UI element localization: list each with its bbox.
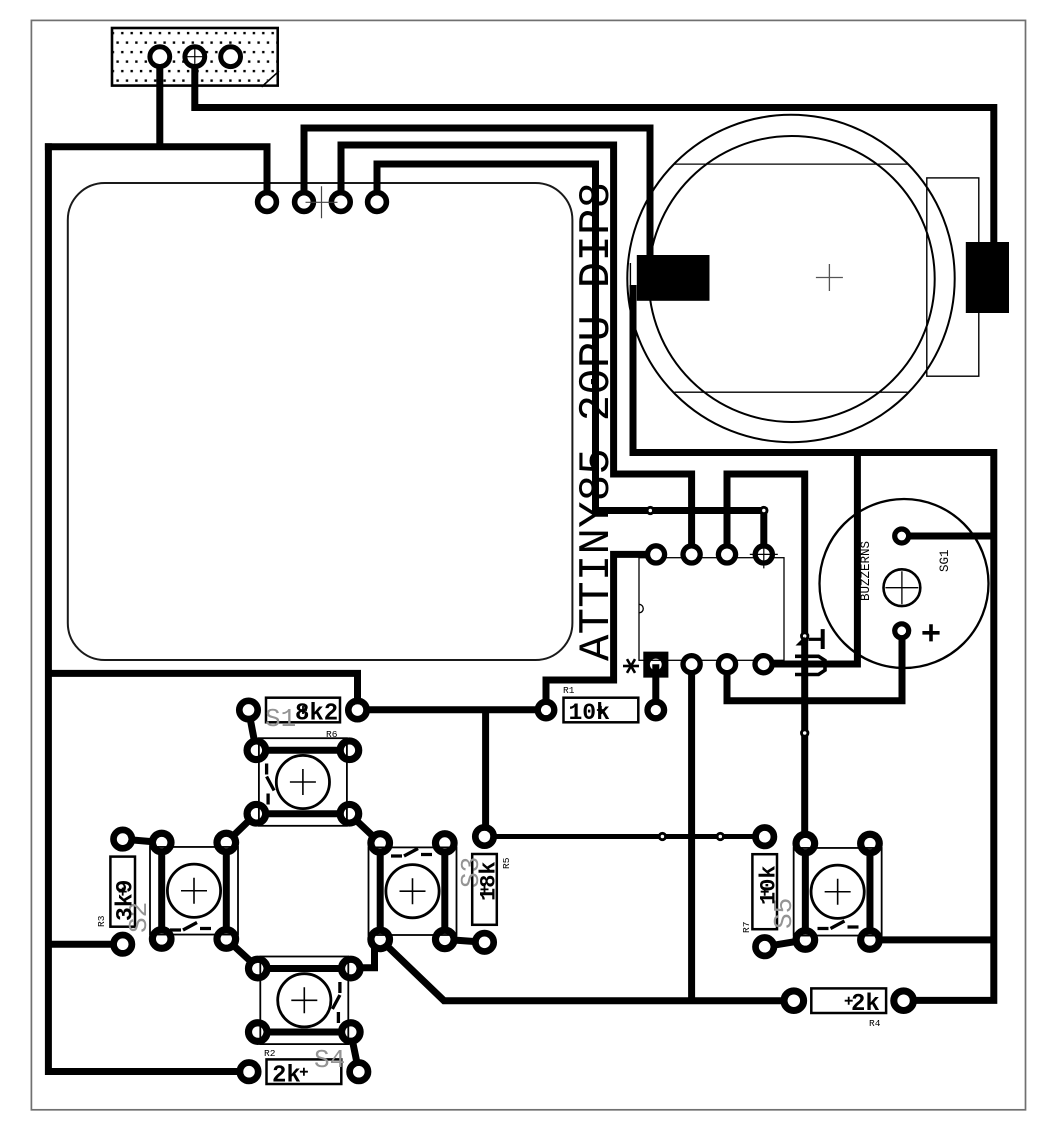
resistor R7 10k <box>741 828 799 956</box>
svg-text:BUZZERNS: BUZZERNS <box>859 541 873 601</box>
svg-text:R1: R1 <box>563 685 575 696</box>
svg-text:3k9: 3k9 <box>113 880 139 921</box>
button S3 <box>369 834 457 949</box>
via B <box>761 507 767 513</box>
svg-text:10k: 10k <box>757 865 782 905</box>
wire diagonal R3 top to S2 TL <box>123 839 162 842</box>
wire connector pad1 down <box>156 53 163 147</box>
wire connector pad2 to battery right pad <box>195 53 994 245</box>
IC U1 ATtiny85 DIP8 <box>639 540 784 677</box>
wire diagonal R7 bottom to S5 BL <box>765 940 806 947</box>
IC name text <box>572 182 622 661</box>
wire IC pin3-bottom to buzzer bottom pad <box>727 631 902 701</box>
wire branch to R6 right pad <box>48 673 357 709</box>
wire display pad3 to IC pin2-top <box>341 145 692 554</box>
svg-text:2k: 2k <box>851 991 880 1018</box>
battery BT1 coin cell holder <box>627 115 1009 442</box>
svg-text:10k: 10k <box>569 700 611 726</box>
svg-text:ATTINY85 20PU DIP8: ATTINY85 20PU DIP8 <box>572 182 622 661</box>
via E <box>659 833 665 839</box>
wire S4 TR pad to S3 BL pad <box>351 939 375 967</box>
svg-text:R5: R5 <box>501 857 512 869</box>
wire thin R5 top to R7 top <box>485 834 765 839</box>
wire diagonal S1 BR to S3 TL <box>349 814 380 843</box>
wire top-left horizontal to display pad1 <box>45 147 267 202</box>
display module outline U2 <box>68 183 573 660</box>
button S5 <box>794 834 882 949</box>
svg-text:18k: 18k <box>477 861 502 901</box>
wire display pad4 to IC pad4-top <box>377 164 764 554</box>
button S4 <box>248 957 360 1045</box>
wire battery left pad to R4 right <box>633 285 994 1000</box>
wire R6-R1 net down to R5 top <box>482 710 489 837</box>
svg-text:S4: S4 <box>314 1045 345 1075</box>
svg-text:R3: R3 <box>96 915 107 927</box>
capacitor C1 symbol <box>795 629 825 674</box>
resistor R3 3k9 <box>96 830 154 954</box>
svg-text:R7: R7 <box>741 922 752 933</box>
button S2 <box>150 833 238 948</box>
wire IC pad1-top to R1 left <box>546 554 656 710</box>
via A <box>647 507 653 513</box>
via F <box>717 833 723 839</box>
connector J1 <box>112 28 279 87</box>
svg-text:8k2: 8k2 <box>295 701 338 728</box>
wire branch to R3 bottom pad <box>48 941 123 948</box>
wire diagonal R6 left to S1 TL <box>249 710 257 750</box>
wire diagonal S1 BL to S2 TR <box>226 814 256 843</box>
wire R6 right pad to R1 left pad <box>358 706 547 713</box>
wire S5 BR pad right <box>870 936 994 943</box>
via D <box>802 730 808 736</box>
resistor R1 10k <box>538 685 664 726</box>
svg-text:2k: 2k <box>272 1063 301 1090</box>
wire IC pad3-top to S5 pad <box>727 474 805 844</box>
buzzer SG1 <box>820 499 989 668</box>
wire IC pin4-bottom to battery trace <box>764 453 858 665</box>
svg-text:R4: R4 <box>869 1018 881 1029</box>
svg-text:SG1: SG1 <box>938 549 952 572</box>
resistor R2 2k <box>240 1045 368 1090</box>
svg-text:S1: S1 <box>265 704 296 734</box>
wire left rail vertical <box>48 143 249 1071</box>
button S1 <box>247 738 359 826</box>
display pads and origin cross <box>258 186 387 218</box>
wire buzzer top pad right <box>902 533 994 540</box>
wire S3 BL pad to R4 left <box>380 939 794 1000</box>
resistor R6 8k2 <box>239 698 366 740</box>
IC pin1 asterisk marker <box>623 659 639 673</box>
resistor R5 18k <box>456 827 512 951</box>
wire IC pin2-bottom down <box>688 664 695 1001</box>
resistor R4 2k <box>784 988 913 1029</box>
via C <box>802 633 808 639</box>
wire diagonal R2 right to S4 BR <box>351 1033 359 1072</box>
wire IC pin1 to R1 right <box>652 664 659 710</box>
wire diagonal S3 BR to R5 bottom <box>445 939 485 942</box>
wire diagonal S2 BR to S4 TL <box>226 939 257 968</box>
svg-text:R2: R2 <box>264 1048 276 1059</box>
wire display pad2 to battery left pad <box>304 128 650 258</box>
